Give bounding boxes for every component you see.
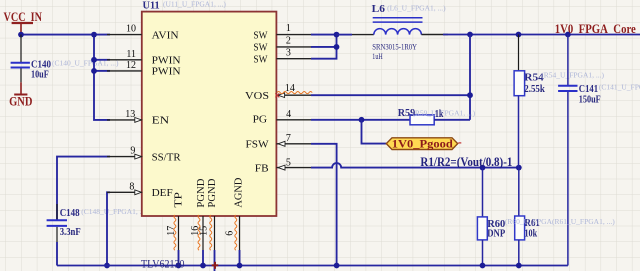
svg-text:13: 13: [125, 109, 135, 120]
svg-text:5: 5: [286, 157, 291, 168]
power port VCC_IN: [4, 10, 43, 35]
svg-text:150uF: 150uF: [579, 93, 601, 105]
svg-text:DNP: DNP: [487, 227, 505, 239]
wire FSW down: [311, 144, 337, 266]
wire PG to Pgood port: [362, 120, 387, 144]
svg-text:SS/TR: SS/TR: [152, 151, 182, 163]
pin 5 FB: [255, 157, 312, 174]
svg-text:AGND: AGND: [233, 178, 245, 208]
svg-text:FSW: FSW: [246, 139, 270, 151]
svg-text:U11: U11: [143, 0, 160, 12]
pin 14 VOS: [245, 83, 312, 102]
junction pin8 rail: [104, 263, 110, 269]
svg-text:EN: EN: [152, 115, 170, 127]
no-ERC squiggle TP: [174, 215, 176, 250]
svg-text:PG: PG: [253, 114, 268, 126]
ERC marker red x VOS pin: [275, 93, 279, 97]
resistor R60: [477, 168, 505, 266]
IC U11 body: [142, 12, 277, 216]
wire SW tie: [311, 35, 337, 59]
no-ERC squiggle AGND: [235, 215, 237, 250]
junction at VCC: [18, 32, 24, 38]
svg-text:12: 12: [126, 60, 136, 71]
pin 9 SS/TR: [107, 146, 181, 164]
svg-text:PGND: PGND: [206, 179, 218, 208]
pin 13 EN: [107, 109, 169, 127]
wire VCC to AVIN pin10: [21, 34, 110, 36]
svg-text:SRN3015-1R0Y: SRN3015-1R0Y: [372, 42, 417, 52]
junction C141 top: [565, 32, 571, 38]
svg-text:R1/R2=(Vout/0.8)-1: R1/R2=(Vout/0.8)-1: [420, 155, 512, 169]
pin 16 PGND: [190, 179, 207, 250]
svg-text:SW: SW: [253, 42, 268, 54]
svg-text:11: 11: [126, 49, 136, 60]
wire pin11: [94, 59, 110, 61]
capacitor C148: [47, 204, 149, 242]
wire EN branch vertical: [94, 35, 110, 120]
svg-text:8: 8: [129, 182, 134, 193]
wire SW to L6: [337, 34, 353, 36]
svg-text:3: 3: [286, 47, 291, 58]
svg-text:1: 1: [286, 23, 291, 34]
ground rail: [57, 265, 568, 267]
pin 7 FSW: [246, 133, 312, 150]
resistor R61: [505, 168, 615, 266]
svg-text:4: 4: [286, 109, 291, 120]
svg-text:10k: 10k: [525, 227, 538, 239]
svg-text:15: 15: [198, 226, 209, 236]
svg-text:SW: SW: [253, 54, 268, 66]
wire TP to rail: [178, 250, 180, 266]
junction pin10/EN: [91, 32, 97, 38]
pin 3 SW: [253, 47, 311, 65]
junction FSW rail: [334, 263, 340, 269]
wire pin2 to tie: [311, 46, 337, 48]
wire VOS horizontal: [311, 94, 470, 96]
no-ERC squiggle VOS: [277, 92, 312, 94]
svg-text:(R59_U_FPGA1, ...): (R59_U_FPGA1, ...): [412, 108, 475, 117]
svg-text:3.3nF: 3.3nF: [60, 226, 81, 238]
svg-text:C148: C148: [60, 207, 80, 219]
wire AGND to rail: [239, 250, 241, 266]
ground GND: [9, 82, 32, 108]
svg-text:2: 2: [286, 36, 291, 47]
pin 1 SW: [253, 23, 311, 41]
wire PGND16 to rail: [202, 250, 204, 266]
junction L6 out: [467, 32, 473, 38]
junction AGND rail: [237, 263, 243, 269]
wire C148 to rail: [56, 242, 58, 266]
svg-text:10: 10: [126, 24, 136, 35]
svg-text:(U11_U_FPGA1, ...): (U11_U_FPGA1, ...): [163, 0, 226, 9]
junction VOS: [467, 92, 473, 98]
pin 6 AGND: [224, 178, 244, 250]
junction FB R60: [480, 165, 486, 171]
pin 8 DEF: [107, 182, 173, 199]
svg-text:1V0 FPGA Core: 1V0 FPGA Core: [555, 22, 636, 36]
ERC marker red cross pin15: [212, 262, 219, 269]
svg-text:FB: FB: [255, 162, 269, 174]
pin 15 PGND: [198, 179, 217, 250]
junction SW pin1: [334, 32, 340, 38]
no-ERC squiggle PGND16: [198, 215, 200, 250]
svg-text:1uH: 1uH: [372, 51, 382, 61]
wire PG to R59: [311, 119, 410, 121]
svg-text:TLV62130: TLV62130: [141, 258, 185, 270]
wire PGND15 through rail: [214, 250, 216, 271]
svg-text:(L6_U_FPGA1, ...): (L6_U_FPGA1, ...): [387, 4, 446, 13]
svg-text:L6: L6: [372, 3, 386, 15]
junction PGND16 rail: [200, 263, 206, 269]
capacitor C141: [558, 35, 640, 266]
pin 12 PWIN: [107, 60, 181, 78]
no-ERC squiggle PGND15: [210, 215, 212, 250]
pin 4 PG: [253, 109, 312, 125]
wire DEF pin8 branch: [107, 192, 110, 265]
junction FB R61: [516, 165, 522, 171]
wire pin12: [94, 70, 110, 72]
svg-text:TP: TP: [172, 192, 184, 208]
resistor R54: [514, 35, 604, 168]
wire L6 to 1V0 rail: [421, 34, 448, 36]
pin 10 AVIN: [107, 24, 179, 42]
svg-text:GND: GND: [9, 94, 32, 108]
svg-text:6: 6: [224, 231, 235, 236]
svg-text:(C148_U_FPGA1, ...): (C148_U_FPGA1, ...): [81, 207, 148, 216]
svg-text:9: 9: [130, 146, 135, 157]
resistor R59: [398, 107, 476, 125]
svg-text:DEF: DEF: [152, 187, 173, 199]
wire R59 to VOS vertical: [434, 119, 470, 121]
junction R60 rail: [480, 263, 486, 269]
junction SW pin2: [334, 44, 340, 50]
svg-text:1k: 1k: [435, 108, 444, 120]
svg-text:1V0_Pgood: 1V0_Pgood: [392, 137, 453, 151]
port 1V0_Pgood: [386, 137, 461, 151]
svg-text:2.55k: 2.55k: [524, 83, 545, 95]
junction R54 top: [516, 32, 522, 38]
svg-text:7: 7: [286, 133, 291, 144]
inductor L6: [372, 3, 447, 61]
pin 17 TP: [166, 192, 185, 250]
svg-text:10uF: 10uF: [31, 68, 49, 80]
svg-text:(C141_U_FPGA1, ...): (C141_U_FPGA1, ...): [599, 83, 640, 92]
junction pin11: [91, 57, 97, 63]
wire FB with hop: [311, 163, 519, 168]
svg-text:AVIN: AVIN: [152, 29, 179, 41]
wire SS/TR pin9 branch: [57, 157, 110, 220]
junction TP rail: [176, 263, 182, 269]
pin 11 PWIN: [107, 49, 181, 67]
svg-text:PWIN: PWIN: [152, 66, 181, 78]
pin 2 SW: [253, 36, 311, 54]
svg-text:(R54_U_FPGA1, ...): (R54_U_FPGA1, ...): [541, 71, 604, 80]
wire VOS net vertical: [469, 35, 471, 120]
junction pin12: [91, 68, 97, 74]
capacitor C140: [11, 35, 119, 83]
svg-text:(R60_U_FPGA(R61_U_FPGA1, ...): (R60_U_FPGA(R61_U_FPGA1, ...): [505, 217, 615, 226]
junction PG/Pgood: [359, 117, 365, 123]
svg-text:SW: SW: [253, 29, 268, 41]
svg-text:VOS: VOS: [245, 90, 269, 102]
junction R61 rail: [516, 263, 522, 269]
